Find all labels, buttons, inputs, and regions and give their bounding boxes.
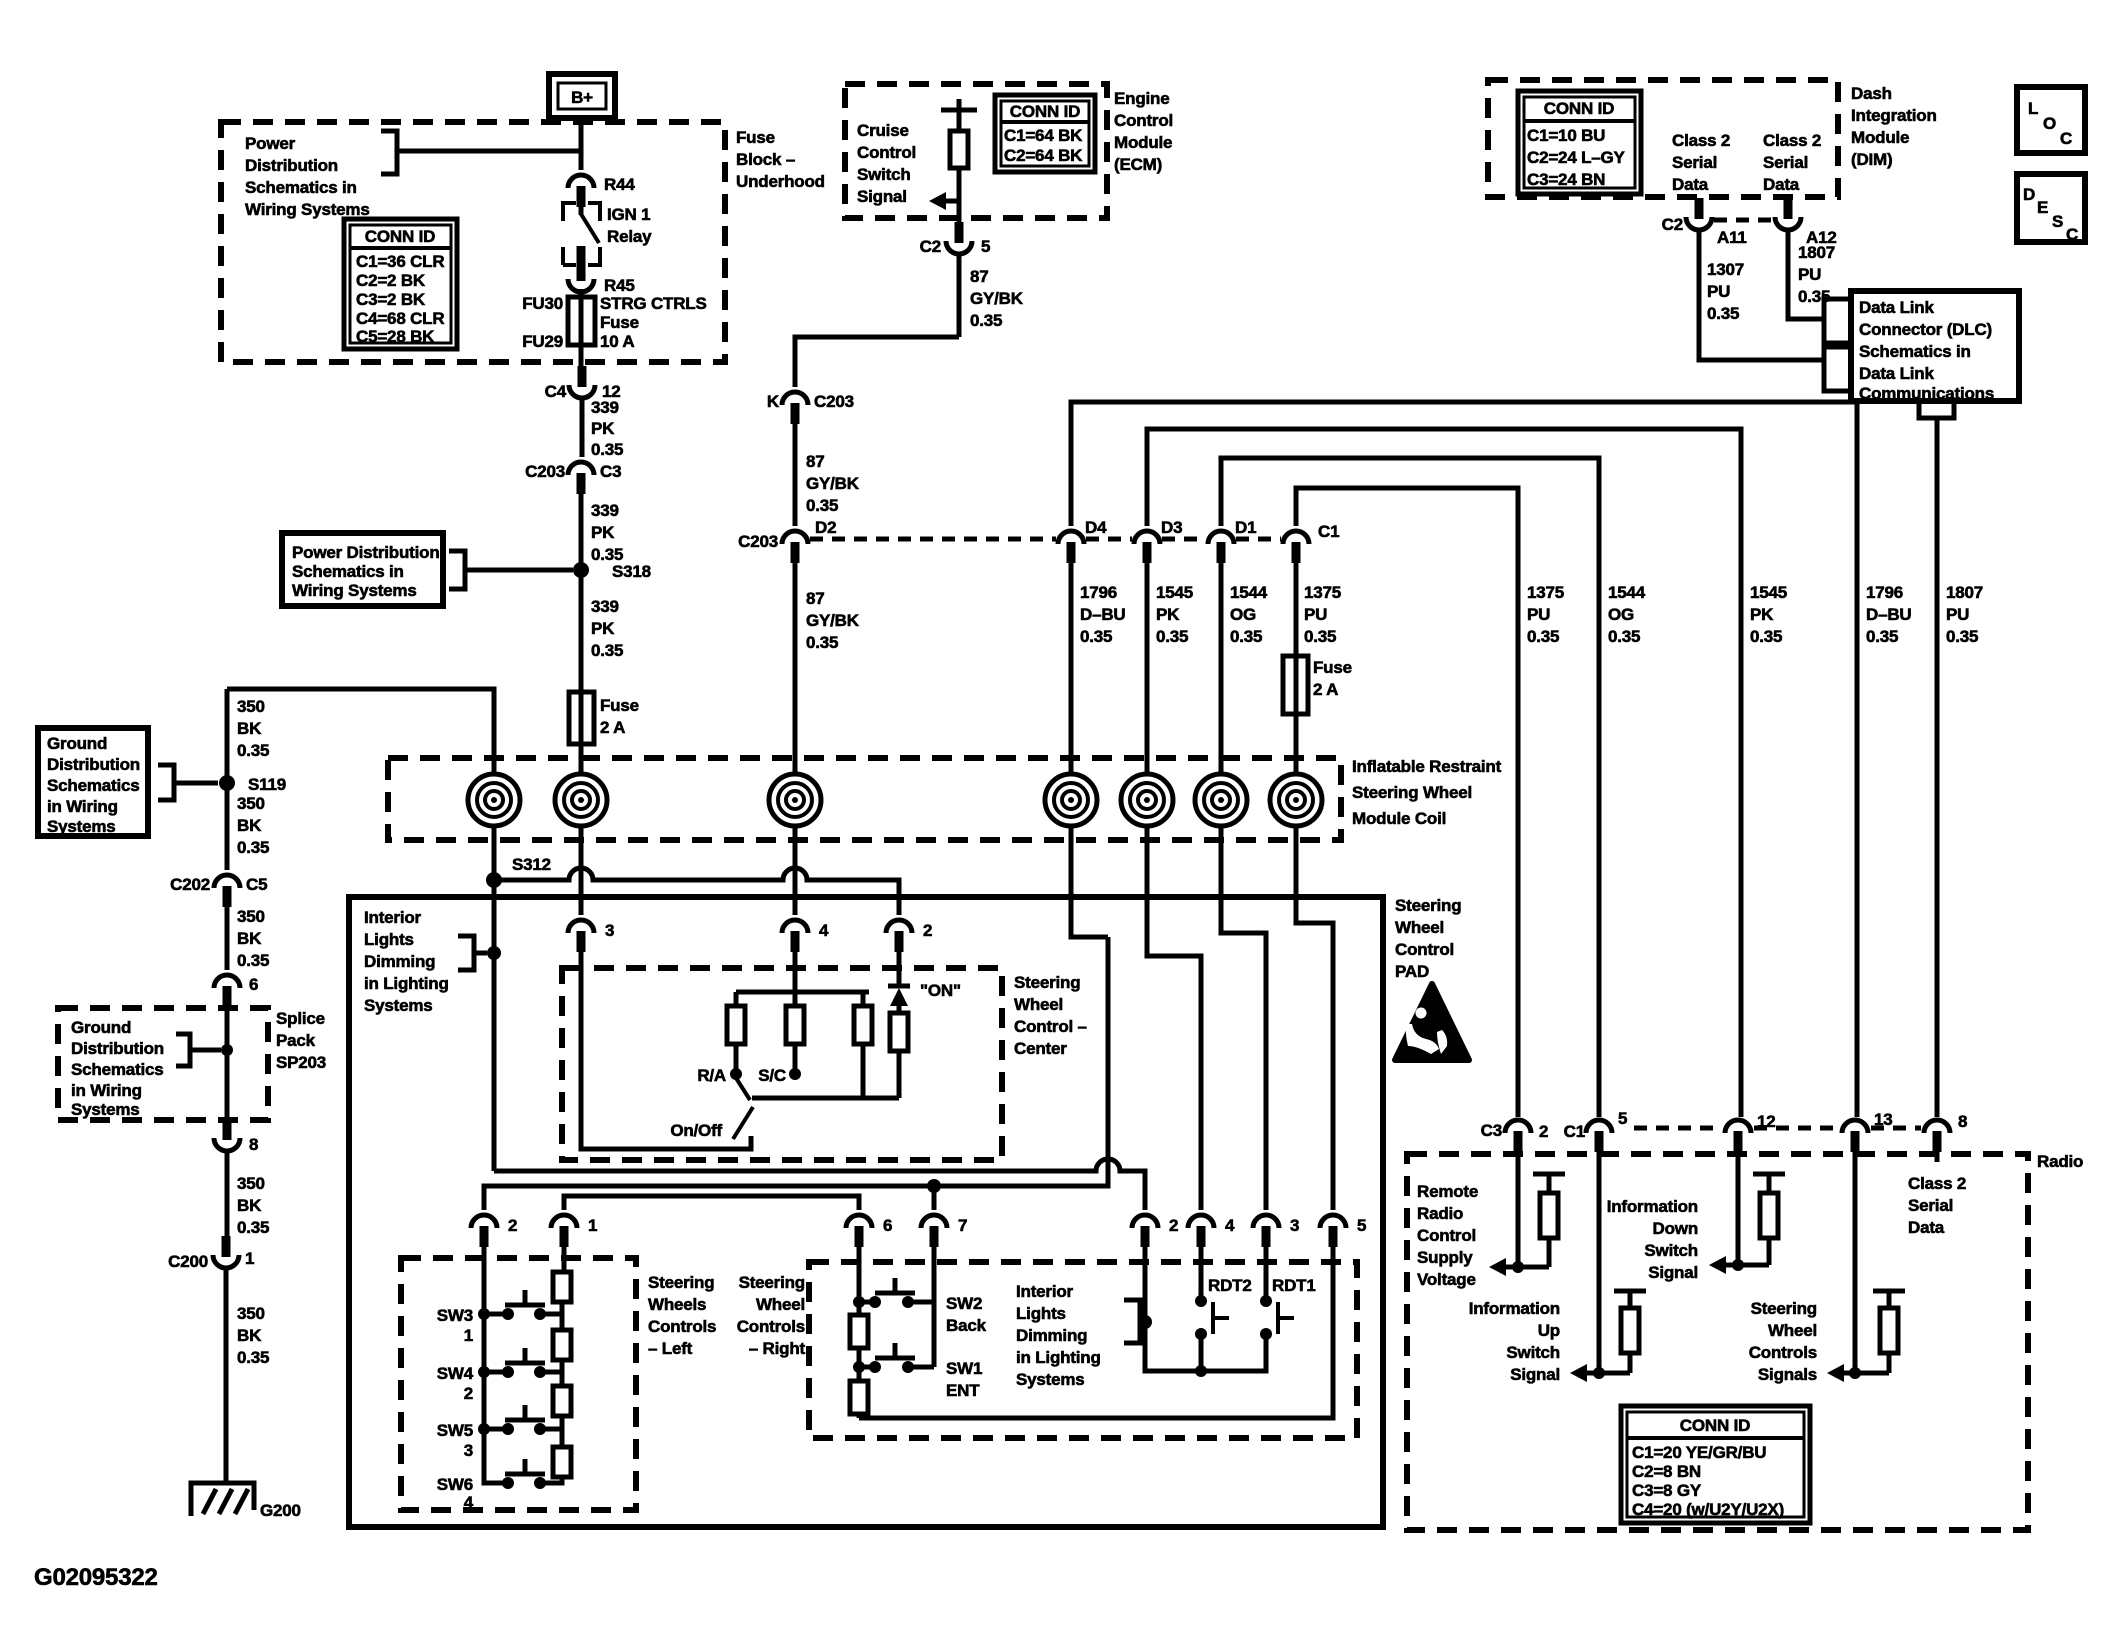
svg-text:Splice: Splice bbox=[276, 1009, 325, 1028]
connector 8 bbox=[214, 1119, 258, 1154]
svg-text:CONN ID: CONN ID bbox=[1544, 99, 1614, 118]
svg-text:C3: C3 bbox=[1481, 1121, 1502, 1140]
wire radio pin 12 branch bbox=[1732, 1150, 1744, 1271]
svg-text:D: D bbox=[2023, 185, 2035, 204]
svg-text:0.35: 0.35 bbox=[1080, 627, 1112, 646]
label: Fuse Block Underhood bbox=[736, 128, 825, 191]
svg-text:Pack: Pack bbox=[276, 1031, 316, 1050]
wire connector 4 to resistor rail bbox=[793, 952, 798, 992]
wire line1 S312 to right connector 2 (hop) bbox=[494, 1159, 1145, 1210]
fuse 2A (C1 branch) bbox=[1283, 656, 1352, 776]
connector 3 bbox=[568, 920, 614, 952]
svg-text:C1=36 CLR: C1=36 CLR bbox=[356, 252, 444, 271]
wire coil2 to connector 3 bbox=[579, 826, 584, 915]
svg-text:Fuse: Fuse bbox=[600, 696, 639, 715]
svg-text:Control: Control bbox=[1114, 111, 1173, 130]
wire switch chain left bbox=[484, 1245, 504, 1483]
svg-text:C1=20 YE/GR/BU: C1=20 YE/GR/BU bbox=[1632, 1443, 1766, 1462]
svg-text:Dimming: Dimming bbox=[1016, 1326, 1087, 1345]
fuse block underhood dashed box bbox=[221, 122, 725, 362]
svg-text:Underhood: Underhood bbox=[736, 172, 825, 191]
ECM dashed box bbox=[845, 84, 1107, 218]
svg-text:Schematics in: Schematics in bbox=[245, 178, 357, 197]
wire connector 7 stem bbox=[932, 1186, 937, 1210]
label: Information Up Switch Signal bbox=[1469, 1299, 1560, 1384]
svg-text:Data Link: Data Link bbox=[1859, 298, 1934, 317]
svg-text:Radio: Radio bbox=[1417, 1204, 1463, 1223]
svg-text:Signal: Signal bbox=[1648, 1263, 1698, 1282]
ground G200 bbox=[191, 1483, 301, 1520]
svg-text:RDT1: RDT1 bbox=[1272, 1276, 1316, 1295]
svg-text:IGN 1: IGN 1 bbox=[607, 205, 650, 224]
right-side wire label 1807 PU 0.35 bbox=[1946, 583, 1983, 646]
svg-text:1375: 1375 bbox=[1527, 583, 1564, 602]
svg-text:0.35: 0.35 bbox=[1866, 627, 1898, 646]
label: Inflatable Restraint Steering Wheel Module Coil bbox=[1352, 757, 1502, 828]
svg-text:Control: Control bbox=[857, 143, 916, 162]
svg-text:BK: BK bbox=[237, 719, 262, 738]
svg-text:PU: PU bbox=[1304, 605, 1327, 624]
svg-text:Controls: Controls bbox=[737, 1317, 805, 1336]
connector 7 (right box) bbox=[921, 1215, 967, 1247]
jog wire coil5 to connector 4 bbox=[1147, 826, 1201, 1210]
wire S312 down to pad bbox=[492, 886, 497, 1171]
svg-text:Power Distribution: Power Distribution bbox=[292, 543, 440, 562]
svg-text:Steering: Steering bbox=[1751, 1299, 1817, 1318]
label: Engine Control Module (ECM) bbox=[1114, 89, 1173, 174]
svg-text:Engine: Engine bbox=[1114, 89, 1169, 108]
wire label 350 BK 0.35 (top) bbox=[237, 697, 269, 760]
switch SW2 Back bbox=[853, 1278, 987, 1335]
svg-text:PK: PK bbox=[591, 419, 615, 438]
svg-text:C202: C202 bbox=[170, 875, 210, 894]
switch RDT1 bbox=[1260, 1276, 1316, 1340]
svg-text:C3=2 BK: C3=2 BK bbox=[356, 290, 426, 309]
svg-text:OG: OG bbox=[1608, 605, 1634, 624]
wire label 1796 D-BU 0.35 bbox=[1071, 563, 1126, 776]
svg-text:C3=24 BN: C3=24 BN bbox=[1527, 170, 1605, 189]
svg-text:SW2: SW2 bbox=[946, 1294, 982, 1313]
wire loop 4 (C1 to radio C3/2) bbox=[1296, 488, 1518, 1117]
label: Steering Wheel Controls Signals bbox=[1749, 1299, 1817, 1384]
CONN ID table (radio) bbox=[1621, 1406, 1810, 1523]
CONN ID table (DIM) bbox=[1518, 91, 1641, 194]
svg-text:1: 1 bbox=[588, 1216, 597, 1235]
svg-text:2: 2 bbox=[508, 1216, 517, 1235]
CONN ID table (fuse block) bbox=[344, 219, 457, 349]
svg-text:1807: 1807 bbox=[1798, 243, 1835, 262]
svg-text:Controls: Controls bbox=[1749, 1343, 1817, 1362]
svg-text:6: 6 bbox=[883, 1216, 892, 1235]
svg-text:C2=64 BK: C2=64 BK bbox=[1004, 146, 1083, 165]
connector 6 (splice) bbox=[214, 975, 258, 1007]
wire label 350 BK 0.35 (below 8) bbox=[227, 1150, 269, 1238]
svg-text:87: 87 bbox=[806, 452, 825, 471]
svg-text:R45: R45 bbox=[604, 276, 635, 295]
connector 2 (RDT group) bbox=[1132, 1215, 1178, 1247]
wire label 339 PK 0.35 bbox=[581, 494, 623, 692]
node R/A bbox=[697, 1066, 742, 1085]
wire coil1 to S312 bbox=[492, 826, 497, 874]
right-side wire label 1796 D-BU 0.35 bbox=[1866, 583, 1912, 646]
pull-up resistor (pin 13 branch) bbox=[1873, 1291, 1905, 1373]
svg-text:Information: Information bbox=[1607, 1197, 1698, 1216]
svg-text:SP203: SP203 bbox=[276, 1053, 326, 1072]
svg-text:Schematics: Schematics bbox=[71, 1060, 164, 1079]
svg-text:Relay: Relay bbox=[607, 227, 652, 246]
svg-text:Control: Control bbox=[1395, 940, 1454, 959]
svg-text:Lights: Lights bbox=[364, 930, 414, 949]
wire loop 3 (D1 to radio C1/5) bbox=[1221, 458, 1599, 1117]
label: Remote Radio Control Supply Voltage bbox=[1417, 1182, 1478, 1289]
bracket lead to S119 bbox=[158, 765, 218, 800]
svg-text:On/Off: On/Off bbox=[670, 1121, 722, 1140]
svg-text:S312: S312 bbox=[512, 855, 551, 874]
svg-text:5: 5 bbox=[981, 237, 990, 256]
coil 1 bbox=[468, 774, 520, 826]
switch blade R/A bbox=[736, 1078, 750, 1100]
DLC label box bbox=[1851, 291, 2019, 403]
dashed segment between A11 A12 bbox=[1714, 218, 1773, 223]
svg-text:0.35: 0.35 bbox=[1230, 627, 1262, 646]
svg-text:C1=64 BK: C1=64 BK bbox=[1004, 126, 1083, 145]
label: Steering Wheel Controls - Right bbox=[737, 1273, 806, 1358]
svg-text:G200: G200 bbox=[260, 1501, 301, 1520]
svg-text:E: E bbox=[2037, 198, 2048, 217]
coil 6 bbox=[1195, 774, 1247, 826]
svg-text:FU30: FU30 bbox=[522, 294, 563, 313]
svg-text:S: S bbox=[2052, 212, 2063, 231]
label: Class 2 Serial Data (radio) bbox=[1908, 1150, 1966, 1237]
label: Interior Lights Dimming in Lighting Systems (right box) bbox=[1016, 1282, 1101, 1389]
wire radio C3 branch bbox=[1512, 1150, 1524, 1273]
steering wheel controls right dashed box bbox=[809, 1262, 1357, 1438]
svg-text:1796: 1796 bbox=[1866, 583, 1903, 602]
svg-text:PK: PK bbox=[1750, 605, 1774, 624]
wire label 87 GY/BK 0.35 (below D2) bbox=[795, 563, 860, 776]
node S312 bbox=[486, 855, 551, 888]
label: Information Down Switch Signal bbox=[1607, 1197, 1698, 1282]
svg-text:5: 5 bbox=[1618, 1109, 1627, 1128]
svg-text:1545: 1545 bbox=[1750, 583, 1787, 602]
wire B+ down bbox=[579, 118, 584, 170]
svg-text:Information: Information bbox=[1469, 1299, 1560, 1318]
wire through splice box bbox=[225, 1007, 230, 1121]
wire label 87 GY/BK 0.35 bbox=[795, 424, 860, 526]
bracket lead to S318 bbox=[449, 551, 573, 589]
dashed connector line D2-D4-D3-D1-C1 bbox=[810, 537, 1281, 542]
svg-text:RDT2: RDT2 bbox=[1208, 1276, 1252, 1295]
svg-text:4: 4 bbox=[819, 921, 829, 940]
svg-text:C2=8 BN: C2=8 BN bbox=[1632, 1462, 1701, 1481]
svg-text:10 A: 10 A bbox=[600, 332, 634, 351]
resistor rail (center) bbox=[736, 990, 869, 995]
svg-text:SW5: SW5 bbox=[437, 1421, 473, 1440]
svg-text:in Wiring: in Wiring bbox=[47, 797, 118, 816]
label: Steering Wheel Control - Center bbox=[1014, 973, 1087, 1058]
svg-text:1: 1 bbox=[245, 1249, 254, 1268]
wire radio pin 13 branch bbox=[1849, 1150, 1861, 1379]
svg-text:1796: 1796 bbox=[1080, 583, 1117, 602]
svg-text:87: 87 bbox=[970, 267, 989, 286]
svg-text:Controls: Controls bbox=[648, 1317, 716, 1336]
wire label 339 PK 0.35 bbox=[582, 397, 623, 459]
svg-text:O: O bbox=[2043, 114, 2056, 133]
bracket lead to splice wire bbox=[176, 1034, 233, 1066]
svg-text:Data: Data bbox=[1908, 1218, 1945, 1237]
svg-text:Wheel: Wheel bbox=[1395, 918, 1444, 937]
arrow remote radio supply bbox=[1489, 1258, 1549, 1276]
svg-text:Wheel: Wheel bbox=[756, 1295, 805, 1314]
wire label 1307 PU 0.35 bbox=[1699, 230, 1824, 360]
ground wire left column bbox=[225, 689, 230, 870]
fuse 2A (left) bbox=[569, 692, 639, 744]
svg-text:0.35: 0.35 bbox=[1707, 304, 1739, 323]
svg-text:Remote: Remote bbox=[1417, 1182, 1478, 1201]
svg-text:Module: Module bbox=[1114, 133, 1172, 152]
svg-text:R/A: R/A bbox=[697, 1066, 726, 1085]
label: Steering Wheel Control PAD bbox=[1395, 896, 1461, 981]
switch RDT2 bbox=[1195, 1276, 1252, 1377]
svg-text:0.35: 0.35 bbox=[1156, 627, 1188, 646]
switch SW1 ENT bbox=[853, 1343, 982, 1400]
wire line3 connector1 to connector 6 bbox=[564, 1196, 859, 1210]
svg-text:7: 7 bbox=[958, 1216, 967, 1235]
svg-text:Schematics in: Schematics in bbox=[1859, 342, 1971, 361]
connector 2 (left box) bbox=[471, 1215, 517, 1247]
wire line2 coil4 to left connector 2 bbox=[484, 937, 1108, 1210]
wire label 1807 PU 0.35 (A12) bbox=[1788, 230, 1835, 319]
svg-text:C1: C1 bbox=[1564, 1122, 1585, 1141]
label: Cruise Control Switch Signal bbox=[857, 121, 916, 206]
svg-text:BK: BK bbox=[237, 1196, 262, 1215]
svg-text:BK: BK bbox=[237, 1326, 262, 1345]
svg-text:FU29: FU29 bbox=[522, 332, 563, 351]
svg-text:PU: PU bbox=[1946, 605, 1969, 624]
svg-text:C1: C1 bbox=[1318, 522, 1339, 541]
wire radio C1 branch bbox=[1593, 1150, 1605, 1379]
svg-text:3: 3 bbox=[605, 921, 614, 940]
CONN ID table (ECM) bbox=[995, 95, 1095, 172]
switch SW4 bbox=[437, 1348, 562, 1403]
svg-text:Systems: Systems bbox=[364, 996, 433, 1015]
svg-text:(DIM): (DIM) bbox=[1851, 150, 1892, 169]
svg-text:0.35: 0.35 bbox=[237, 838, 269, 857]
connector 5 (RDT group) bbox=[1320, 1215, 1366, 1247]
DESC symbol box bbox=[2017, 174, 2085, 244]
svg-text:Data Link: Data Link bbox=[1859, 364, 1934, 383]
svg-text:C2=2 BK: C2=2 BK bbox=[356, 271, 426, 290]
svg-text:C3=8 GY: C3=8 GY bbox=[1632, 1481, 1702, 1500]
wire C2 to K bbox=[795, 337, 959, 387]
svg-text:C: C bbox=[2066, 225, 2078, 244]
resistor (right box upper) bbox=[850, 1302, 868, 1367]
svg-text:GY/BK: GY/BK bbox=[806, 611, 860, 630]
svg-text:PU: PU bbox=[1798, 265, 1821, 284]
connector R44 bbox=[568, 175, 635, 207]
connector C203 D2 bbox=[738, 518, 836, 563]
svg-text:Signals: Signals bbox=[1758, 1365, 1817, 1384]
svg-text:CONN ID: CONN ID bbox=[1680, 1416, 1750, 1435]
svg-text:SW3: SW3 bbox=[437, 1306, 473, 1325]
svg-text:Systems: Systems bbox=[1016, 1370, 1085, 1389]
svg-text:C: C bbox=[2060, 129, 2072, 148]
svg-text:PU: PU bbox=[1527, 605, 1550, 624]
svg-text:2 A: 2 A bbox=[1313, 680, 1338, 699]
connector 4 bbox=[782, 920, 829, 952]
ground feed wire to coil 1 bbox=[227, 689, 494, 774]
svg-text:C4: C4 bbox=[545, 382, 567, 401]
svg-text:BK: BK bbox=[237, 929, 262, 948]
resistor 2 (center) bbox=[786, 992, 804, 1069]
svg-text:0.35: 0.35 bbox=[970, 311, 1002, 330]
arrow cruise signal bbox=[929, 192, 959, 210]
svg-text:Data: Data bbox=[1672, 175, 1709, 194]
junction connector 7 on line2 bbox=[927, 1179, 941, 1193]
arrow steering wheel controls signals bbox=[1827, 1364, 1889, 1382]
svg-text:Class 2: Class 2 bbox=[1763, 131, 1821, 150]
svg-text:350: 350 bbox=[237, 1304, 265, 1323]
svg-text:Steering Wheel: Steering Wheel bbox=[1352, 783, 1472, 802]
svg-text:2: 2 bbox=[1539, 1122, 1548, 1141]
svg-text:0.35: 0.35 bbox=[237, 1218, 269, 1237]
bracket lead to node bbox=[381, 131, 581, 174]
svg-text:Control –: Control – bbox=[1014, 1017, 1087, 1036]
pull-up resistor (C1 branch) bbox=[1614, 1291, 1646, 1373]
svg-text:Fuse: Fuse bbox=[600, 313, 639, 332]
svg-text:Distribution: Distribution bbox=[245, 156, 338, 175]
svg-text:0.35: 0.35 bbox=[591, 641, 623, 660]
svg-text:– Right: – Right bbox=[749, 1339, 806, 1358]
svg-text:Schematics in: Schematics in bbox=[292, 562, 404, 581]
svg-text:6: 6 bbox=[249, 975, 258, 994]
svg-text:Interior: Interior bbox=[1016, 1282, 1074, 1301]
wire label 350 BK 0.35 (bottom) bbox=[226, 1266, 269, 1483]
svg-text:Lights: Lights bbox=[1016, 1304, 1066, 1323]
DLC upper bracket bbox=[1824, 299, 1848, 343]
svg-text:Up: Up bbox=[1538, 1321, 1560, 1340]
resistor 1 (center) bbox=[727, 992, 745, 1069]
label: Interior Lights Dimming in Lighting Systems (left) bbox=[364, 908, 449, 1015]
resistor in ECM bbox=[941, 99, 977, 222]
svg-text:Switch: Switch bbox=[1644, 1241, 1698, 1260]
connector C202 C5 bbox=[170, 875, 267, 907]
connector C200 pin 1 bbox=[168, 1236, 254, 1271]
label: Class 2 Serial Data (A11) bbox=[1672, 131, 1730, 194]
svg-text:Signal: Signal bbox=[857, 187, 907, 206]
connector C4 pin 12 bbox=[545, 366, 621, 401]
wire label 1375 PU 0.35 bbox=[1296, 563, 1341, 692]
svg-text:B+: B+ bbox=[571, 88, 593, 107]
wire label 350 BK 0.35 (below S119) bbox=[237, 794, 269, 857]
svg-text:L: L bbox=[2028, 99, 2038, 118]
coil 2 bbox=[555, 774, 607, 826]
svg-text:G02095322: G02095322 bbox=[34, 1564, 158, 1591]
svg-text:Control: Control bbox=[1417, 1226, 1476, 1245]
svg-text:Signal: Signal bbox=[1510, 1365, 1560, 1384]
radio connector pin 8 bbox=[1924, 1112, 1967, 1152]
svg-text:Systems: Systems bbox=[47, 817, 116, 836]
svg-text:C1=10 BU: C1=10 BU bbox=[1527, 126, 1605, 145]
svg-text:5: 5 bbox=[1357, 1216, 1366, 1235]
svg-text:Module Coil: Module Coil bbox=[1352, 809, 1446, 828]
svg-text:8: 8 bbox=[249, 1135, 258, 1154]
connector D3 bbox=[1134, 518, 1182, 563]
svg-text:3: 3 bbox=[1290, 1216, 1299, 1235]
label box: Power Distribution Schematics in Wiring Systems bbox=[282, 533, 443, 606]
wire bottom rail to connector 5 bbox=[859, 1245, 1333, 1418]
bracket lead to S312 wire bbox=[458, 936, 501, 970]
svg-text:Wheel: Wheel bbox=[1768, 1321, 1817, 1340]
radio connector C1 pin 5 bbox=[1564, 1109, 1628, 1152]
svg-text:C4=68 CLR: C4=68 CLR bbox=[356, 309, 444, 328]
radio connector pin 13 bbox=[1842, 1110, 1893, 1152]
svg-text:1545: 1545 bbox=[1156, 583, 1193, 602]
svg-text:Ground: Ground bbox=[47, 734, 107, 753]
jog wire coil4 bbox=[1071, 826, 1108, 937]
svg-text:Integration: Integration bbox=[1851, 106, 1937, 125]
wire connector 3 down and to on/off bbox=[581, 952, 751, 1149]
svg-text:Cruise: Cruise bbox=[857, 121, 909, 140]
svg-text:Distribution: Distribution bbox=[47, 755, 140, 774]
node S119 bbox=[219, 775, 286, 794]
connector C2 A11 (DIM) bbox=[1662, 198, 1747, 247]
DLC lower bracket bbox=[1824, 347, 1848, 391]
svg-text:PAD: PAD bbox=[1395, 962, 1429, 981]
svg-text:0.35: 0.35 bbox=[1608, 627, 1640, 646]
svg-text:Back: Back bbox=[946, 1316, 987, 1335]
relay IGN 1 bbox=[563, 203, 652, 276]
coil 3 bbox=[769, 774, 821, 826]
bracket below DLC box bbox=[1919, 402, 1954, 418]
svg-text:Steering: Steering bbox=[1014, 973, 1080, 992]
wire connector 6 stem bbox=[857, 1245, 862, 1302]
svg-text:Steering: Steering bbox=[1395, 896, 1461, 915]
svg-text:Systems: Systems bbox=[71, 1100, 140, 1119]
connector 1 (left box) bbox=[551, 1215, 597, 1247]
node S318 bbox=[573, 562, 651, 581]
svg-text:D4: D4 bbox=[1085, 518, 1107, 537]
svg-text:Connector (DLC): Connector (DLC) bbox=[1859, 320, 1992, 339]
dashed connector line (radio row) bbox=[1634, 1126, 1921, 1131]
label: Steering Wheels Controls - Left bbox=[648, 1273, 716, 1358]
svg-text:D3: D3 bbox=[1161, 518, 1182, 537]
bracket lead to connector 2 wire bbox=[1124, 1300, 1152, 1343]
svg-text:0.35: 0.35 bbox=[806, 496, 838, 515]
svg-text:C5=28 BK: C5=28 BK bbox=[356, 327, 435, 346]
wire label 1545 PK 0.35 bbox=[1147, 563, 1193, 776]
radio connector pin 12 bbox=[1725, 1112, 1776, 1152]
switch blade On/Off bbox=[670, 1107, 753, 1140]
svg-text:C2=24 L–GY: C2=24 L–GY bbox=[1527, 148, 1626, 167]
svg-text:350: 350 bbox=[237, 907, 265, 926]
svg-text:0.35: 0.35 bbox=[806, 633, 838, 652]
svg-text:K: K bbox=[767, 392, 780, 411]
svg-text:Steering: Steering bbox=[648, 1273, 714, 1292]
connector C1 bbox=[1283, 522, 1339, 563]
coil 4 bbox=[1045, 774, 1097, 826]
svg-text:C2: C2 bbox=[920, 237, 941, 256]
svg-text:D2: D2 bbox=[815, 518, 836, 537]
svg-text:0.35: 0.35 bbox=[1304, 627, 1336, 646]
label: Class 2 Serial Data (A12) bbox=[1763, 131, 1821, 194]
connector D1 bbox=[1208, 518, 1256, 563]
svg-text:in Wiring: in Wiring bbox=[71, 1081, 142, 1100]
svg-text:Serial: Serial bbox=[1763, 153, 1808, 172]
diode ON branch bbox=[888, 952, 961, 1098]
coil 7 bbox=[1270, 774, 1322, 826]
svg-text:– Left: – Left bbox=[648, 1339, 693, 1358]
